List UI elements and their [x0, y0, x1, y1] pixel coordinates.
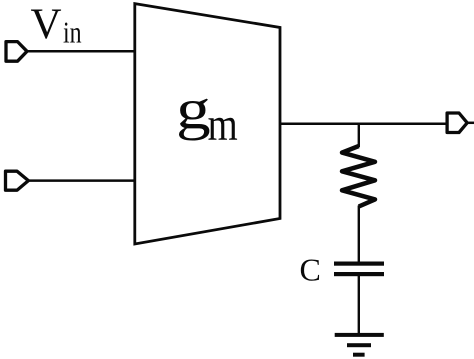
wire: bottom input to gm: [28, 179, 136, 182]
ground bar 3: [353, 353, 365, 357]
ground bar 1: [335, 333, 384, 337]
wire: resistor to capacitor: [358, 206, 360, 263]
svg-text:m: m: [208, 99, 238, 150]
wire: top input to gm: [27, 50, 136, 53]
wire: output stub: [467, 122, 474, 125]
svg-text:in: in: [63, 15, 82, 50]
input terminal IN- (bottom left): [6, 171, 29, 190]
wire: capacitor to ground: [358, 276, 360, 334]
op-amp U1 (transconductor gm trapezoid): [135, 4, 280, 244]
resistor R: [342, 146, 375, 207]
svg-text:C: C: [300, 252, 321, 288]
svg-text:V: V: [31, 1, 62, 48]
wire: junction down to resistor: [358, 123, 360, 147]
wire: gm output: [280, 123, 446, 126]
output terminal OUT: [447, 113, 467, 133]
input terminal IN+ (top left): [6, 42, 27, 62]
capacitor C top plate: [334, 262, 384, 266]
ground bar 2: [347, 343, 371, 347]
svg-text:g: g: [176, 79, 211, 142]
capacitor C bottom plate: [334, 272, 384, 276]
